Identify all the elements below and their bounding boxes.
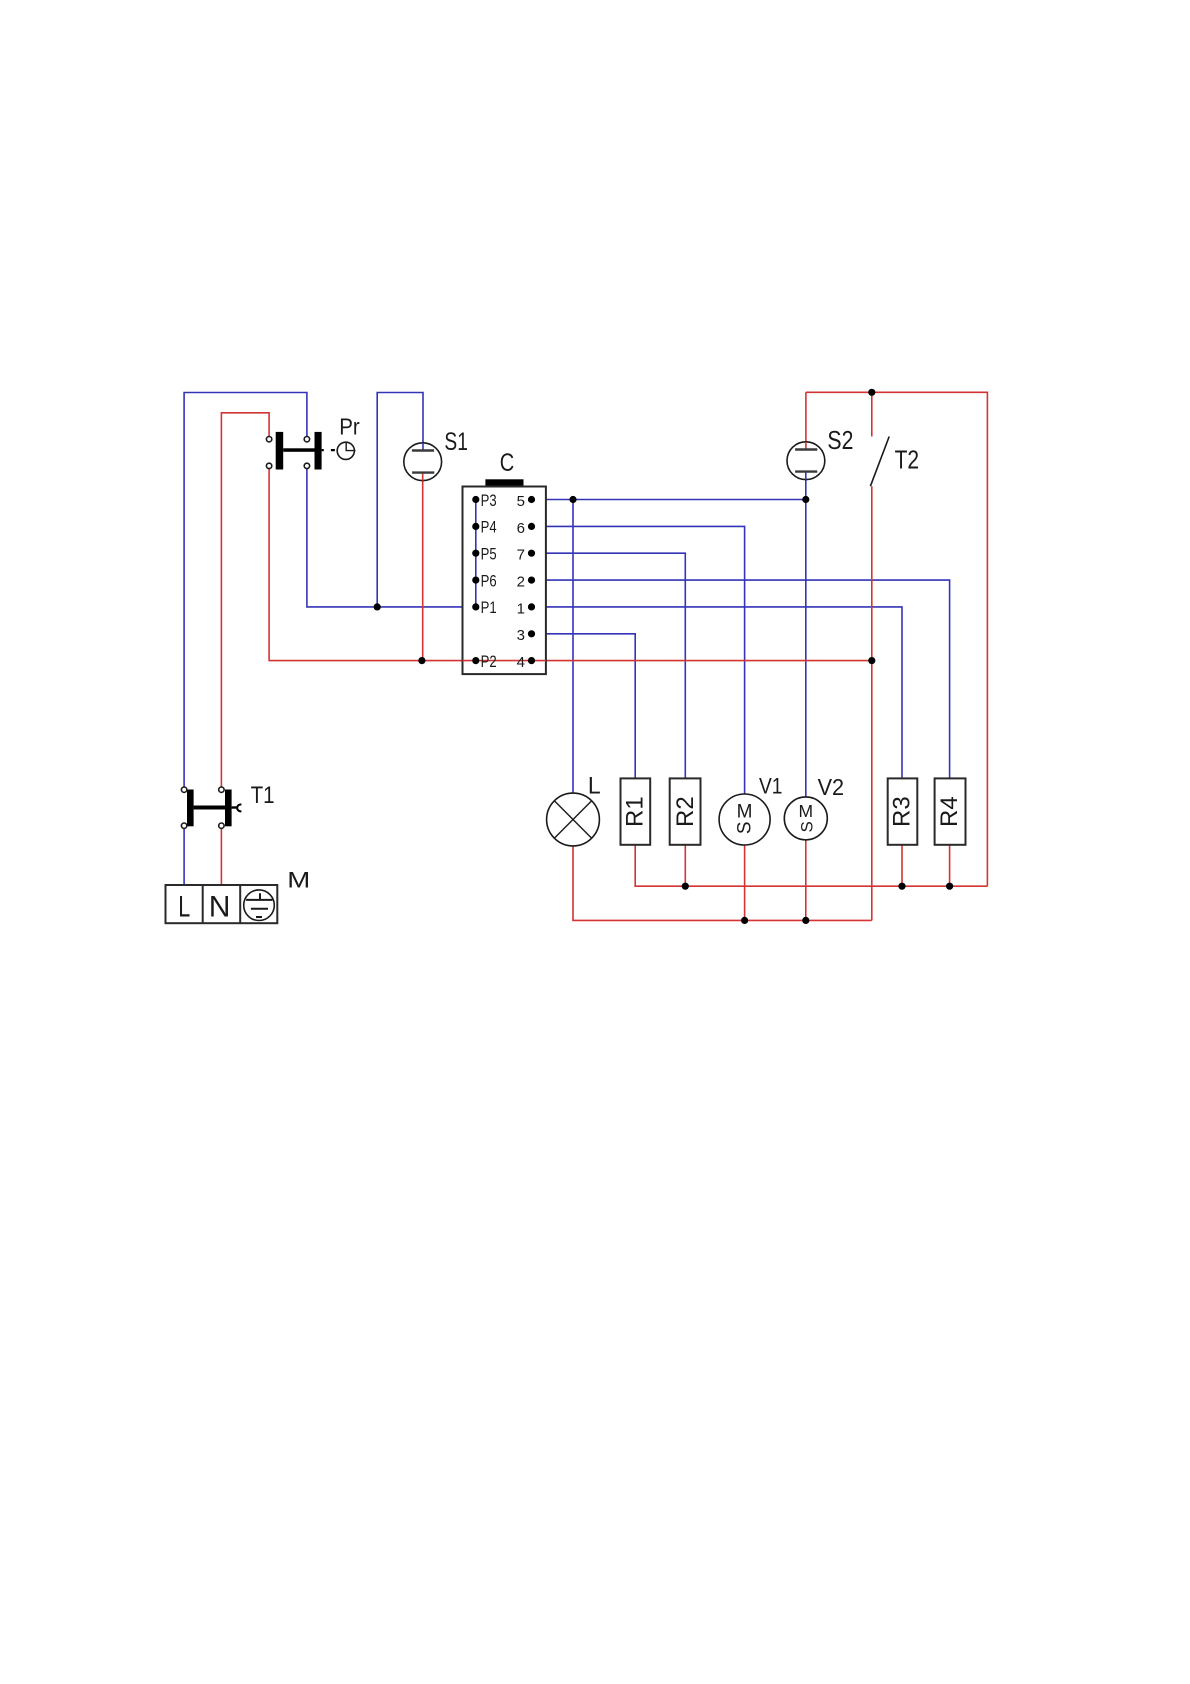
svg-text:7: 7: [517, 547, 525, 564]
svg-text:R1: R1: [622, 796, 649, 827]
svg-text:5: 5: [517, 493, 525, 510]
svg-text:L: L: [178, 891, 190, 924]
svg-text:N: N: [209, 891, 231, 924]
svg-text:1: 1: [517, 600, 525, 617]
svg-text:R2: R2: [672, 796, 699, 827]
svg-text:V1: V1: [759, 774, 783, 799]
svg-text:C: C: [500, 449, 515, 477]
svg-text:2: 2: [517, 574, 525, 591]
svg-text:P4: P4: [481, 518, 497, 537]
svg-text:R4: R4: [936, 796, 963, 827]
svg-text:M: M: [737, 802, 753, 823]
svg-text:6: 6: [517, 520, 525, 537]
svg-text:S2: S2: [827, 425, 853, 455]
svg-text:V2: V2: [818, 774, 845, 800]
svg-text:Pr: Pr: [339, 414, 360, 440]
svg-text:M: M: [287, 868, 310, 893]
svg-text:S: S: [735, 821, 756, 834]
svg-text:T1: T1: [251, 782, 275, 809]
svg-text:R3: R3: [889, 796, 916, 827]
svg-text:P2: P2: [481, 652, 497, 671]
svg-text:P1: P1: [481, 598, 497, 617]
svg-text:S: S: [797, 821, 816, 832]
svg-text:P6: P6: [481, 571, 497, 590]
svg-text:S1: S1: [444, 428, 468, 456]
svg-text:3: 3: [517, 627, 525, 644]
svg-text:T2: T2: [895, 445, 920, 475]
svg-text:P5: P5: [481, 545, 497, 564]
svg-text:L: L: [588, 773, 601, 800]
svg-text:4: 4: [517, 654, 525, 671]
svg-text:P3: P3: [481, 491, 497, 510]
svg-text:M: M: [799, 801, 814, 821]
